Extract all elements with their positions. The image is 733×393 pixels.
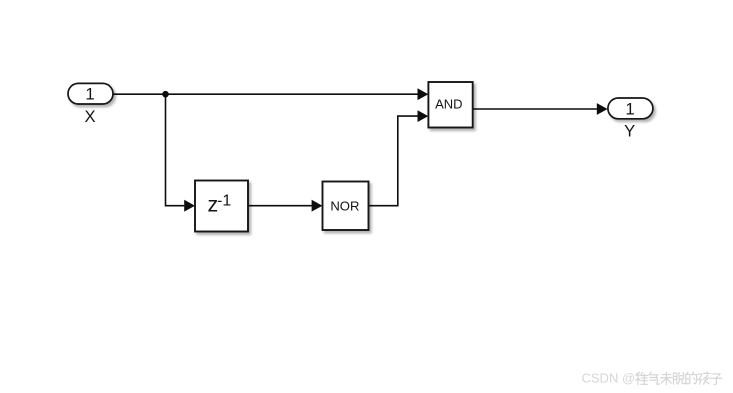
NOR block <box>323 182 369 231</box>
wire <box>369 116 418 206</box>
svg-text:X: X <box>84 107 95 126</box>
svg-text:AND: AND <box>435 97 462 112</box>
watermark CSDN <box>582 371 636 386</box>
wire <box>473 108 597 110</box>
svg-text:CSDN @: CSDN @ <box>582 371 636 386</box>
wire <box>166 94 185 206</box>
node junction <box>162 91 169 98</box>
unit delay block Z-1 <box>195 181 248 232</box>
inport 1 (X) <box>68 83 113 104</box>
wire <box>248 205 312 207</box>
svg-text:NOR: NOR <box>330 199 359 214</box>
svg-text:-1: -1 <box>217 193 231 210</box>
watermark CJK glyphs (drawn) <box>636 372 722 385</box>
AND block <box>428 82 472 128</box>
svg-text:Y: Y <box>624 122 635 141</box>
outport 1 (Y) <box>608 98 653 119</box>
svg-text:1: 1 <box>85 84 94 103</box>
wire <box>113 93 418 95</box>
svg-text:1: 1 <box>625 99 634 118</box>
